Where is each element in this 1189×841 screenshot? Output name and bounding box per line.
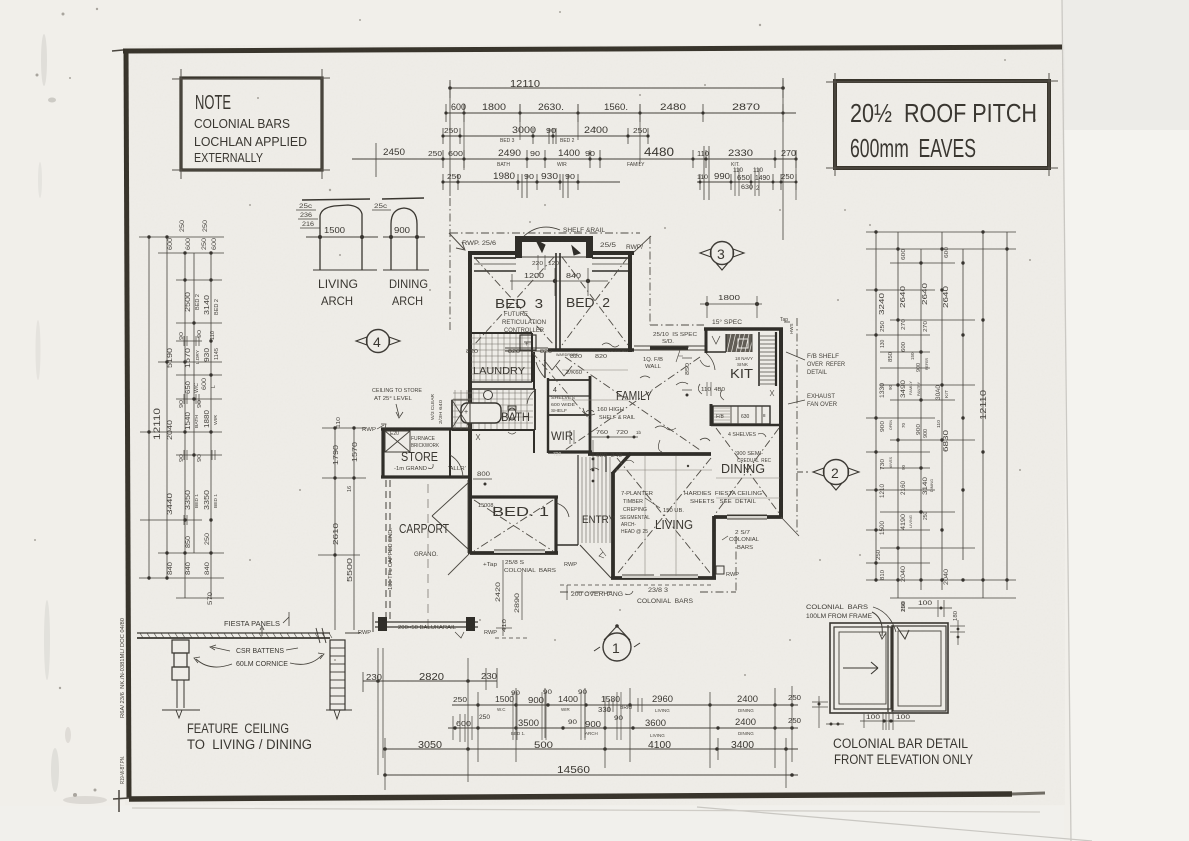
wall left exterior [468, 251, 472, 430]
bay inner arrows [536, 240, 545, 252]
bed2 hip diagonals [562, 257, 628, 345]
dining arch dim line [383, 236, 425, 238]
living arch base [313, 269, 377, 271]
page edge line [1062, 0, 1071, 841]
bottom dim row2 [452, 704, 798, 706]
carport centerline [427, 484, 429, 628]
bottom margin area [0, 806, 1064, 841]
living arch outline [320, 205, 362, 270]
family interior lines [562, 369, 628, 371]
family area handwriting marks [602, 343, 619, 347]
top dim long verticals [449, 82, 451, 196]
toilet [508, 408, 516, 420]
laundry walls [470, 332, 532, 334]
bed1 hip diagonals [474, 500, 553, 551]
scan specks [62, 13, 65, 16]
top dim row 12110 [450, 87, 783, 89]
living hip diagonals [617, 458, 711, 574]
kitchen interior lines [706, 351, 726, 353]
sliding door track [634, 345, 706, 347]
border frame top [123, 47, 1062, 51]
wall bed divider [555, 253, 557, 350]
wall bed1 bottom [470, 551, 558, 555]
eaves kitchen right vertical [796, 318, 798, 535]
frame corner ticks [112, 50, 123, 51]
section marker 4 [367, 330, 390, 353]
hall small ticks [569, 430, 571, 444]
bath walls [470, 388, 535, 390]
wall left lower exterior [468, 429, 472, 554]
ceiling band break [316, 628, 320, 643]
bath grid [454, 390, 456, 429]
dim 1200 840 [510, 280, 608, 282]
closet block walls [547, 378, 549, 453]
wall shelf bay [516, 236, 592, 258]
top dim row3 [443, 135, 648, 137]
bed3 hip diagonals [474, 257, 554, 345]
dining interior lines [716, 477, 780, 479]
bed1 door arc [556, 503, 569, 517]
bottom dim row3 [448, 727, 798, 729]
window left pane [834, 627, 891, 709]
eaves corner diag [634, 236, 651, 252]
wall bed1 right [554, 496, 557, 554]
border frame bottom [129, 794, 1012, 799]
page curl diagonal [697, 807, 1092, 841]
wall right exterior [779, 328, 783, 518]
laundry trough [520, 335, 536, 350]
page right edge strip [1062, 0, 1189, 841]
wall living east [712, 516, 716, 579]
bay niche bottom line [522, 256, 586, 258]
store x-brace [385, 431, 410, 452]
scan grain overlay [125, 45, 1065, 805]
right dim block verticals [875, 232, 877, 580]
bed3 robe [474, 257, 516, 259]
wall living bottom [611, 576, 716, 580]
bath small marks [508, 432, 516, 434]
family hip diagonals [565, 357, 700, 450]
wall kitchen top [704, 327, 783, 330]
left mid dim pair 5500 [334, 428, 336, 630]
window bottom left ticks [812, 701, 828, 703]
window bar mark [897, 627, 909, 639]
eaves left vertical [449, 198, 451, 330]
dim 1800 kitchen [700, 303, 762, 305]
carport right edge [467, 480, 469, 553]
bottom dim row5 14560 [385, 774, 798, 776]
section marker 1 [603, 633, 631, 661]
window right pane [893, 626, 946, 711]
window bed1 bottom [494, 549, 545, 551]
store right wall [449, 429, 451, 477]
kitchen door arc [706, 353, 715, 370]
right dim block horizontal ticks [866, 231, 1016, 233]
hall diag [532, 352, 590, 420]
bath tub [461, 403, 501, 423]
hall door arcs [527, 389, 536, 404]
bottom dim left 600 box ticks [459, 714, 461, 742]
left dim double ticks [183, 336, 185, 346]
entry arrow mark [599, 548, 606, 558]
living interior verticals [644, 456, 646, 576]
right dim block dots [874, 230, 877, 233]
page edge top tint [1062, 0, 1189, 130]
eaves arrow top left [449, 233, 464, 249]
carport hips [432, 483, 468, 516]
store top wall [381, 427, 470, 430]
wall kitchen left [705, 328, 708, 353]
entry dots [592, 458, 595, 461]
wall top exterior [468, 251, 634, 255]
right pilaster ladder [330, 640, 345, 710]
kitchen f/b hatch [714, 407, 730, 409]
bottom left smudges [63, 796, 107, 804]
eaves kitchen horizontal [650, 324, 704, 326]
laundry grid [473, 334, 475, 381]
note box border [181, 78, 322, 170]
bed2 robe [592, 257, 628, 259]
ann 2420 2890 verticals [502, 560, 504, 636]
window bottom 100 dims [860, 720, 915, 722]
family squiggle arrows [676, 382, 688, 385]
store bottom wall [381, 475, 470, 478]
dining arch outline [391, 208, 417, 270]
window dining bottom [727, 514, 767, 516]
bath basin [484, 391, 493, 400]
left dim block verticals [148, 237, 150, 578]
wall hall top [548, 348, 634, 351]
store door arc [450, 455, 463, 477]
left dim block dots [147, 235, 150, 238]
carport boundary dashed [385, 480, 387, 622]
wall family bottom / living top [588, 452, 711, 456]
top dim row2 [446, 112, 796, 114]
window detail outer frame [830, 623, 948, 713]
carport bottom left wall tick [372, 612, 374, 632]
marker2 leader dash [797, 471, 808, 473]
kitchen small marks [712, 336, 720, 344]
ann 700 720 hall [590, 436, 638, 438]
wall living west [611, 472, 615, 579]
dining arch base [383, 269, 429, 271]
kitchen sink [738, 339, 748, 348]
left dim block horizontal ticks [139, 236, 224, 238]
bottom dim verticals [377, 648, 379, 775]
left margin streaks [41, 34, 47, 86]
bottom dim row1 230-2820-230 [363, 680, 497, 682]
border frame left [126, 49, 129, 798]
living arch ceiling dash line [302, 199, 370, 200]
pantry shelves [758, 332, 760, 386]
window arrow [843, 667, 878, 669]
top dim 2450 [352, 158, 428, 160]
dining hip diagonals [716, 428, 779, 513]
store left wall [381, 428, 384, 478]
eaves bottom left diag [448, 553, 470, 575]
bath window x [452, 400, 470, 428]
porch diagonal [580, 545, 611, 578]
wall entry chamfer [612, 453, 631, 474]
living arch dim line [306, 236, 378, 238]
wall bed2 right [628, 251, 632, 352]
ann 600 240 small [592, 440, 594, 470]
wall dining top [711, 424, 781, 427]
bottom eaves dashes [560, 591, 612, 593]
bottom dim row4 [385, 748, 798, 750]
top dim row5 left [443, 181, 620, 183]
wall dining left [710, 404, 713, 426]
eaves right vertical [649, 236, 651, 325]
windows living bottom [622, 574, 654, 576]
eaves top horizontal [450, 232, 640, 234]
window top right 100 dim [908, 607, 952, 609]
wir bottom wall [548, 450, 592, 453]
section marker 2 [824, 460, 849, 485]
ceiling band [137, 632, 330, 634]
eaves dining corner diag [781, 517, 799, 536]
carport balustrade [375, 621, 478, 623]
hall west wall stubs [533, 352, 535, 389]
bottom dim 90 double ticks [512, 692, 514, 740]
section marker 3 [711, 242, 734, 265]
wall dining bottom [714, 515, 783, 519]
entry slats [577, 457, 579, 543]
top dim row5 right [697, 181, 796, 183]
ann rwp living [716, 566, 724, 574]
kitchen cabinets row [713, 406, 770, 424]
window center mullion [887, 625, 889, 712]
top dim row4 [428, 158, 796, 160]
wall bed1 top [470, 495, 558, 498]
kitchen bench hatch [726, 334, 752, 352]
left pilaster [172, 640, 189, 653]
window hall top [505, 347, 548, 349]
roof pitch box border [835, 81, 1049, 168]
